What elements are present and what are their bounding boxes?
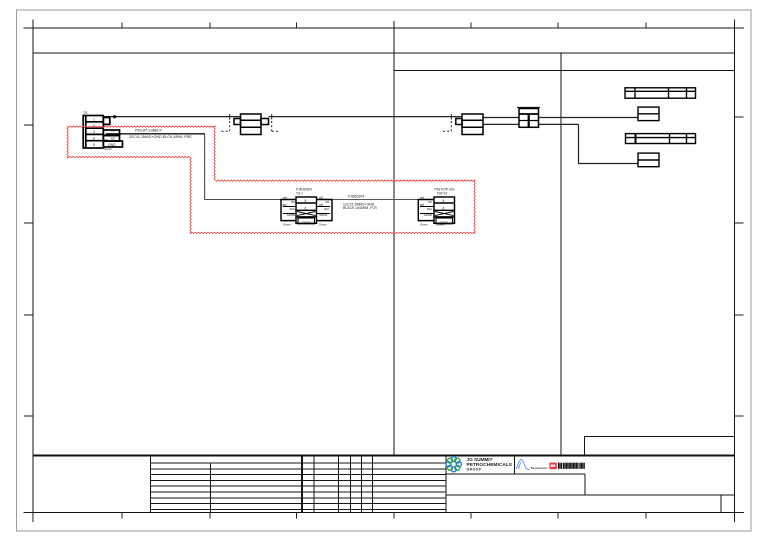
svg-text:grn: grn (282, 203, 287, 207)
svg-text:5: 5 (305, 199, 307, 203)
svg-text:Green: Green (420, 223, 428, 227)
svg-text:5: 5 (93, 143, 95, 147)
svg-text:P63-AT-11886-P: P63-AT-11886-P (135, 129, 162, 133)
svg-text:bw: bw (105, 137, 108, 141)
svg-text:Green: Green (283, 223, 291, 227)
svg-text:5: 5 (443, 199, 445, 203)
svg-text:w5: w5 (420, 196, 424, 200)
svg-text:GRND: GRND (287, 213, 295, 217)
svg-text:b: b (93, 137, 95, 141)
svg-text:6: 6 (305, 206, 307, 210)
svg-text:TS: TS (83, 111, 88, 115)
svg-text:w6: w6 (420, 203, 424, 207)
svg-text:32C41-1MAD+GND,BLCK,ARNI..PRE: 32C41-1MAD+GND,BLCK,ARNI..PRE (129, 135, 192, 139)
svg-text:RD: RD (291, 200, 295, 204)
svg-text:w1: w1 (111, 129, 115, 133)
svg-text:RD: RD (428, 200, 432, 204)
svg-text:w6: w6 (319, 203, 323, 207)
svg-text:BLK: BLK (427, 207, 432, 211)
svg-text:BLK,: BLK, (324, 207, 330, 211)
svg-text:GRND: GRND (319, 213, 327, 217)
svg-text:w2: w2 (111, 137, 115, 141)
svg-text:1: 1 (93, 118, 95, 122)
svg-text:BLACK,UNARM.,FLR: BLACK,UNARM.,FLR (343, 206, 377, 210)
svg-text:RD,: RD, (326, 200, 331, 204)
svg-text:Tecnimont: Tecnimont (531, 466, 548, 470)
svg-text:wh: wh (283, 196, 287, 200)
svg-text:TSP 22: TSP 22 (437, 191, 448, 195)
svg-text:6: 6 (443, 206, 445, 210)
svg-text:3: 3 (93, 130, 95, 134)
svg-text:TS-1: TS-1 (296, 191, 303, 195)
svg-text:Green: Green (319, 223, 327, 227)
svg-text:w5: w5 (319, 196, 323, 200)
svg-text:Green: Green (437, 223, 445, 227)
svg-text:GND: GND (108, 143, 116, 147)
svg-text:GRND: GRND (302, 220, 310, 224)
svg-text:BLK: BLK (290, 207, 295, 211)
svg-text:GROUP: GROUP (467, 467, 482, 471)
svg-text:GRND: GRND (424, 213, 432, 217)
svg-text:Green: Green (104, 147, 113, 151)
svg-text:PJB60304: PJB60304 (348, 194, 364, 198)
